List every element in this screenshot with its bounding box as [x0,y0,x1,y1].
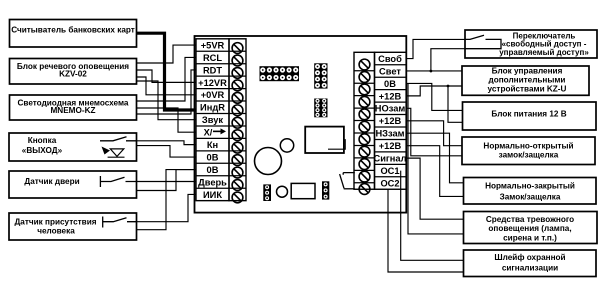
svg-text:устройствами KZ-U: устройствами KZ-U [488,84,567,93]
IC U1 [305,127,344,153]
terminal Сигнал (right strip pin 9) [354,152,407,170]
svg-text:RCL: RCL [203,53,222,63]
svg-text:Датчик присутствия: Датчик присутствия [14,217,96,226]
junction: +12В branch [447,85,450,88]
capacitor C2 (small round can) [277,186,288,197]
wire: +12В to NC lock [406,146,463,197]
terminal ИндR (left strip pin 6) [196,101,246,116]
wire: KZV-02 to +0VR [137,77,197,95]
block: voice annunciator KZV-02 [10,59,137,85]
block: guard alarm loop (Шлейф) [464,250,597,277]
wire: exit button to 0В [137,146,197,157]
svg-text:Сигнал: Сигнал [374,154,407,164]
wire: +12В to KZ-U [406,86,462,96]
wire: door sensor to Дверь [137,181,197,183]
svg-text:Блок питания 12 В: Блок питания 12 В [491,109,566,118]
svg-text:«ВЫХОД»: «ВЫХОД» [22,146,63,155]
relay changeover contact at ОС terminals [340,173,355,189]
svg-text:сирена и т.п.): сирена и т.п.) [503,234,557,243]
relay K1 (large round can) [255,148,282,175]
wire: +12В branch to power supply [448,86,463,122]
thick cable: card reader to ИндR terminal [137,33,197,110]
svg-text:Кнопка: Кнопка [28,136,57,145]
connector J3 (2x4 header) [314,99,327,118]
junction: switch return on Свет wire [430,70,433,73]
svg-text:KZV-02: KZV-02 [59,70,87,79]
switch S4 inside access-mode block [465,35,501,49]
svg-text:Датчик двери: Датчик двери [24,177,79,186]
wire: presence sensor to ИИК [137,194,197,221]
terminal НОзам (right strip pin 5) [354,102,406,120]
svg-text:НЗзам: НЗзам [375,129,404,139]
block: alarm annunciation devices [464,212,598,244]
svg-text:MNEMO-KZ: MNEMO-KZ [50,106,95,115]
svg-text:Свет: Свет [379,66,401,76]
terminal Х/→ (left strip pin 8) [196,126,246,141]
svg-text:ИндR: ИндR [200,103,225,113]
svg-text:0В: 0В [207,152,219,162]
terminal Звук (left strip pin 7) [196,114,246,129]
wire: ОС1 to alarm loop [401,171,464,261]
terminal Кн (left strip pin 9) [196,138,246,153]
terminal НЗзам (right strip pin 7) [354,127,406,145]
capacitor C1 (small round can) [280,139,293,152]
terminal ОС2 (right strip pin 11) [354,177,406,195]
block: normally-closed lock [464,178,597,205]
wire: ОС2 to alarm loop [388,189,464,272]
terminal +12В (right strip pin 4) [354,90,406,108]
terminal Свет (right strip pin 2) [354,65,406,83]
svg-text:Шлейф охранной: Шлейф охранной [494,253,565,262]
svg-text:человека: человека [37,226,75,235]
wire: door sensor to 0В [137,170,197,191]
svg-text:замок/защелка: замок/защелка [499,151,559,160]
wire: Свет to KZ-U [406,70,462,72]
svg-text:Х/: Х/ [204,128,213,138]
terminal +12В (right strip pin 8) [354,139,406,157]
terminal Дверь (left strip pin 12) [196,176,246,191]
svg-text:оповещения (лампа,: оповещения (лампа, [488,224,571,233]
terminal 0В (left strip pin 11) [196,163,246,178]
block: access-mode switch (Переключатель) [465,30,597,58]
terminal +12VR (left strip pin 4) [196,76,246,91]
terminal +5VR (left strip pin 1) [201,40,243,53]
switch S2 inside door-sensor block [100,176,136,187]
terminal Своб (right strip pin 1) [359,54,402,70]
svg-text:Звук: Звук [202,115,223,125]
svg-text:Нормально-открытый: Нормально-открытый [483,142,573,151]
terminal RCL (left strip pin 2) [196,51,246,66]
connector J4 (1x3 header) [263,184,271,201]
svg-text:ОС2: ОС2 [380,178,399,188]
terminal 0В (right strip pin 3) [354,77,406,95]
wire stub to НЗзам area [328,139,345,149]
terminal ОС1 (right strip pin 10) [354,164,406,182]
svg-text:Средства тревожного: Средства тревожного [486,215,574,224]
wire: +12В to NO lock [406,121,462,146]
block: 12V power supply [463,102,597,130]
svg-text:Блок управления: Блок управления [492,66,563,75]
terminal 0В (left strip pin 10) [196,151,246,166]
wire: 0В to power supply [406,83,462,110]
wire: MNEMO-KZ to Х/→ [137,108,197,132]
svg-text:Нормально-закрытый: Нормально-закрытый [485,182,575,191]
switch S1 inside exit-button block [100,137,137,141]
block: presence sensor (Датчик присутствия человека) [9,213,137,240]
connector J1 (2x6 header) [260,66,300,81]
wire: KZV-02 to Звук [137,81,197,120]
left terminal strip frame [196,39,229,201]
switch S3 inside presence-sensor block [103,217,137,228]
svg-text:сигнализации: сигнализации [502,263,558,272]
block: door sensor (Датчик двери) [9,171,137,198]
svg-text:0В: 0В [384,79,396,89]
svg-text:Дверь: Дверь [198,177,227,187]
svg-text:Считыватель банковских карт: Считыватель банковских карт [11,25,135,35]
wire: Своб to access-mode switch [406,39,465,58]
right terminal strip frame [354,52,375,189]
wire: 0В branch to alarm devices [408,83,464,233]
svg-text:управляемый доступ»: управляемый доступ» [499,48,589,57]
svg-text:0В: 0В [207,165,219,175]
connector J5 (1x3 header) [322,181,329,199]
svg-text:+5VR: +5VR [201,40,225,50]
svg-text:НОзам: НОзам [375,104,406,114]
svg-text:RDT: RDT [203,65,222,75]
block: LED mnemonic panel MNEMO-KZ [10,95,137,120]
svg-text:ОС1: ОС1 [380,166,399,176]
wire: presence sensor to 0В [137,170,197,230]
wire: exit button to Кн [137,141,197,145]
svg-text:Замок/защелка: Замок/защелка [500,193,561,202]
main controller unit outline [195,36,407,213]
wire: KZV-02 to +12VR [137,70,197,82]
block: normally-open lock [462,137,595,165]
svg-text:+12VR: +12VR [198,78,227,88]
component X1 (rectangular part) [291,183,315,198]
svg-text:Кн: Кн [207,140,218,150]
svg-text:+12В: +12В [379,91,402,101]
terminal RDT (left strip pin 3) [196,64,246,79]
wire: НОзам to NO lock [406,108,462,155]
terminal +0VR (left strip pin 5) [196,89,246,104]
svg-text:+12В: +12В [379,116,402,126]
terminal +12В (right strip pin 6) [354,115,406,133]
svg-text:+12В: +12В [379,141,402,151]
wire: MNEMO-KZ to RCL [137,57,197,101]
wire: НЗзам to NC lock [406,133,463,183]
wire: Сигнал to alarm devices [406,158,463,219]
svg-text:дополнительными: дополнительными [489,75,566,84]
svg-text:ИИК: ИИК [203,190,222,200]
wire: MNEMO-KZ to RDT [137,70,197,114]
block: exit button (Кнопка ВЫХОД) [9,133,137,161]
connector J2 (2x4 header) [314,63,327,88]
wire: KZV-02 to +5VR [137,45,197,63]
svg-text:+0VR: +0VR [201,90,225,100]
svg-text:Своб: Своб [378,54,402,64]
push actuator symbol (arrow + triangle) in exit-button block [102,147,125,158]
block: auxiliary control unit KZ-U [462,66,589,95]
terminal ИИК (left strip pin 13) [196,188,246,203]
block: card reader (Считыватель банковских карт) [10,20,137,48]
wire: access-mode switch return to Свет [431,49,465,71]
